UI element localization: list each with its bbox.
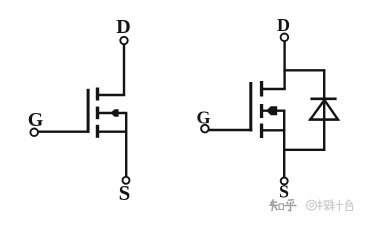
svg-text:D: D <box>116 16 130 38</box>
svg-text:G: G <box>196 108 210 128</box>
terminal circle G (Q2) <box>201 125 209 133</box>
Q1 channel source contact bar <box>96 125 99 138</box>
Q2 body arrow (points to channel, N-channel) <box>266 106 277 115</box>
Q1 channel drain contact bar <box>96 88 99 101</box>
watermark char @ <box>307 200 317 210</box>
Q1 body arrow (points to channel, N-channel) <box>110 109 118 117</box>
Q2 channel drain contact bar <box>260 81 263 97</box>
svg-text:S: S <box>279 182 289 202</box>
wire: Q1 drain vertical <box>123 44 125 96</box>
svg-text:G: G <box>28 109 44 131</box>
wire: Q1 body lead horizontal <box>99 112 128 114</box>
diode D1 triangle base line <box>309 118 338 120</box>
wire: diode bottom branch <box>283 149 325 151</box>
watermark char 乎 <box>285 200 296 211</box>
wire: diode top branch <box>283 69 325 71</box>
Q2 gate bar <box>249 82 252 132</box>
terminal circle D (Q2) <box>281 34 289 42</box>
wire: Q1 source vertical <box>125 113 127 177</box>
wire: Q2 drain lead horizontal <box>262 88 286 90</box>
wire: Q1 gate lead horizontal <box>38 130 90 132</box>
terminal circle G (Q1) <box>30 129 38 137</box>
svg-text:D: D <box>277 15 290 35</box>
wire: diode vertical <box>323 69 325 151</box>
wire: Q2 source lead horizontal <box>262 129 285 131</box>
terminal circle S (Q2) <box>281 178 288 185</box>
wire: Q2 gate lead horizontal <box>209 129 253 131</box>
wire: Q2 drain vertical <box>283 41 285 90</box>
diode D1 (Q2 body diode) <box>309 69 338 151</box>
Q2 channel source contact bar <box>260 124 263 139</box>
wire: Q2 source vertical <box>283 111 285 178</box>
wire: Q2 body lead horizontal <box>262 109 285 111</box>
watermark char 针 <box>331 200 343 211</box>
wire: Q1 drain lead horizontal <box>99 94 126 96</box>
transistor Q2 (right N-channel MOSFET with body diode) <box>196 15 325 202</box>
watermark char 台 <box>346 200 353 211</box>
wire: Q1 source lead horizontal <box>99 130 128 132</box>
diode D1 anode triangle <box>310 100 338 120</box>
svg-text:S: S <box>119 181 131 205</box>
watermark: gray text 知乎 @探针台 (drawn as strokes) <box>270 200 296 211</box>
terminal circle D (Q1) <box>120 37 127 44</box>
diode D1 cathode bar <box>310 98 336 101</box>
transistor Q1 (left N-channel MOSFET) <box>28 16 131 205</box>
Q1 channel body contact bar <box>96 107 99 120</box>
watermark char 探 <box>318 200 330 211</box>
Q1 gate bar <box>87 89 90 133</box>
Q2 channel body contact bar <box>260 104 263 118</box>
watermark char 知 <box>270 200 283 211</box>
terminal circle S (Q1) <box>123 177 130 184</box>
